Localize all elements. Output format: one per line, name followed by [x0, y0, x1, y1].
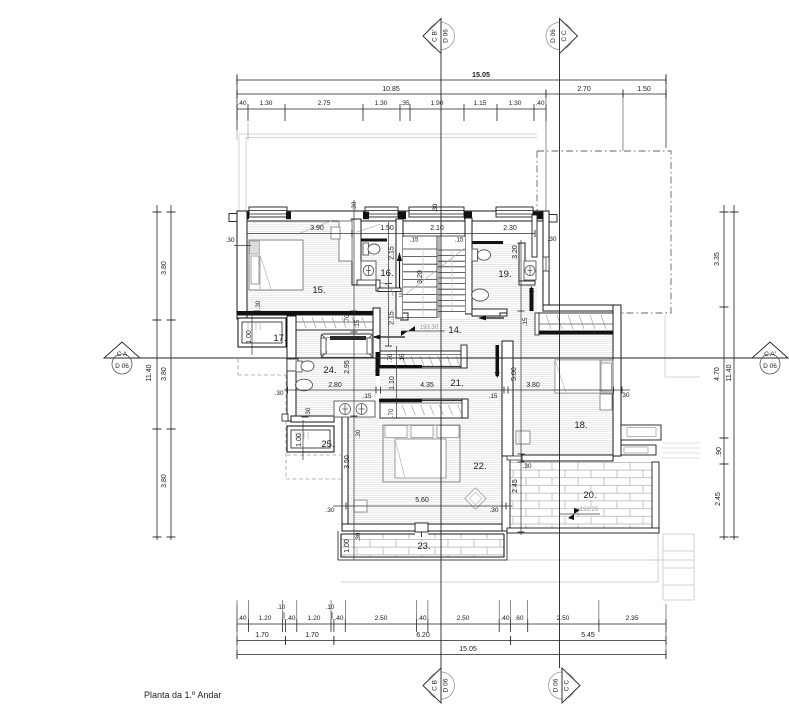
svg-text:.30: .30: [432, 203, 439, 212]
svg-text:1.10: 1.10: [389, 376, 396, 390]
svg-text:3.35: 3.35: [714, 252, 721, 266]
svg-text:4.35: 4.35: [420, 382, 434, 389]
svg-text:.35: .35: [400, 100, 409, 107]
small protrusion top-right: [549, 215, 557, 223]
svg-text:3.80: 3.80: [161, 261, 168, 275]
svg-text:23.: 23.: [417, 541, 430, 552]
svg-text:.30: .30: [489, 507, 498, 514]
svg-text:1.20: 1.20: [259, 615, 272, 622]
svg-text:C A': C A': [764, 351, 776, 358]
svg-text:.90: .90: [716, 447, 723, 457]
horizontal dim line y=506 (5.60): [333, 505, 512, 507]
left exterior wall room 15: [237, 211, 247, 319]
stairwell right wall / room19 left wall: [465, 218, 472, 314]
dash-dot roof rectangle top right: [537, 151, 671, 313]
svg-text:.40: .40: [286, 615, 295, 622]
balcony 25: [287, 426, 334, 452]
closet band C room22 top: [380, 399, 468, 418]
svg-text:1.00: 1.00: [296, 433, 303, 447]
svg-text:.40: .40: [237, 615, 246, 622]
room24 south wall: [291, 416, 334, 422]
terrace 20 brick hatch: [507, 462, 654, 528]
room18 closet thick bottom line: [537, 331, 613, 335]
small protrusion top-left: [229, 214, 238, 222]
nightstand below bed room18: [600, 394, 612, 410]
section marker CA left: [104, 342, 140, 358]
svg-text:.15: .15: [363, 393, 372, 400]
svg-text:5.60: 5.60: [415, 497, 429, 504]
svg-text:C B': C B': [432, 30, 439, 42]
room24 wall door jog: [287, 359, 298, 371]
section marker CB bottom: [428, 672, 455, 699]
svg-text:.30: .30: [255, 300, 262, 309]
svg-text:25.: 25.: [321, 439, 334, 450]
washbasin WC16: [361, 261, 376, 280]
toilet room 19: [472, 249, 478, 261]
svg-text:.60: .60: [514, 615, 523, 622]
top dim extension lines: [236, 74, 238, 130]
svg-text:2.50: 2.50: [457, 615, 470, 622]
WC16 top thick line: [361, 239, 387, 242]
ottoman diamond room 22: [465, 488, 486, 509]
svg-text:.30: .30: [274, 390, 283, 397]
toilet WC16: [363, 243, 369, 255]
svg-text:15: 15: [398, 292, 403, 298]
svg-text:193.25: 193.25: [580, 507, 599, 513]
faint steps bottom-right corner: [648, 559, 694, 561]
vertical dim line x=354: [353, 200, 355, 560]
room18 closet left stub: [535, 313, 539, 335]
window/door in room22 south wall: [415, 523, 428, 532]
svg-text:.30: .30: [522, 463, 531, 470]
svg-text:2.45: 2.45: [715, 492, 722, 506]
svg-text:193.30: 193.30: [420, 325, 439, 331]
svg-text:.30: .30: [305, 407, 312, 416]
svg-text:3.80: 3.80: [161, 367, 168, 381]
svg-text:15.05: 15.05: [459, 646, 477, 653]
faint steps right of planters: [662, 442, 700, 444]
svg-text:.30: .30: [225, 237, 234, 244]
toilet room 24: [296, 361, 302, 372]
svg-text:3.50: 3.50: [344, 455, 351, 469]
WC16 south wall with step: [357, 280, 378, 285]
svg-text:1.70: 1.70: [305, 632, 319, 639]
room 22 left wall: [342, 412, 348, 531]
terrace 20 left wall: [502, 456, 510, 531]
room 24 floor hatch: [296, 330, 376, 417]
svg-text:5.45: 5.45: [581, 632, 595, 639]
svg-text:.40: .40: [417, 615, 426, 622]
hall 14 floor hatch: [353, 285, 403, 351]
svg-text:D 06: D 06: [115, 363, 129, 370]
svg-text:2.80: 2.80: [328, 382, 342, 389]
room 18 closet band: [537, 313, 613, 331]
wall between hall/22 and room 18: [502, 341, 513, 456]
svg-text:19.: 19.: [498, 269, 511, 280]
svg-text:.15: .15: [354, 319, 361, 328]
svg-text:2.70: 2.70: [577, 86, 591, 93]
svg-text:.40: .40: [535, 100, 544, 107]
svg-text:6.20: 6.20: [416, 632, 430, 639]
svg-text:C C: C C: [564, 680, 571, 692]
balcony 23 brick hatch: [341, 534, 504, 557]
room 22 south wall: [342, 524, 502, 531]
room 18 south wall: [522, 455, 613, 461]
staircase: [403, 236, 465, 318]
vertical dim labels 2.15 / 1.10 x=396: [393, 367, 400, 369]
svg-text:.30: .30: [547, 236, 556, 243]
svg-text:15.05: 15.05: [472, 70, 490, 79]
room 18 + corridor floor hatch: [495, 311, 613, 455]
window sills top wall: [249, 207, 287, 217]
svg-text:11.40: 11.40: [146, 364, 153, 381]
svg-text:C C: C C: [561, 30, 568, 42]
svg-text:3.80: 3.80: [161, 474, 168, 488]
right exterior wall room 18: [613, 305, 621, 456]
stairwell left wall: [396, 219, 403, 318]
svg-text:15.: 15.: [312, 285, 325, 296]
faint exterior steps right: [663, 533, 694, 535]
svg-text:D 06: D 06: [763, 363, 777, 370]
svg-text:.15: .15: [522, 317, 529, 326]
stair break diagonal: [405, 247, 466, 295]
wardrobe room 15 top right: [339, 221, 352, 261]
door swing arc WC16: [381, 283, 393, 296]
svg-text:14.: 14.: [448, 325, 461, 336]
svg-text:.70: .70: [344, 314, 351, 323]
stair walking lines faint: [422, 249, 424, 317]
lower terrace outline below (faint): [341, 559, 658, 561]
balcony 17 floor hatch: [243, 322, 281, 343]
svg-text:.70: .70: [387, 353, 394, 362]
section line CC vertical: [559, 54, 561, 669]
level mark 193.30 hall 14: [401, 326, 415, 336]
pocket door leaf room 24 (dark): [376, 352, 380, 376]
svg-text:.40: .40: [237, 100, 246, 107]
svg-text:1.70: 1.70: [255, 632, 269, 639]
room 15 floor hatch: [247, 220, 352, 311]
section marker CA right: [752, 342, 788, 358]
svg-text:5.00: 5.00: [511, 367, 518, 381]
door leaf into room 18 corridor (dark): [496, 345, 500, 376]
svg-text:.15: .15: [455, 237, 464, 244]
section line CA horizontal: [105, 357, 753, 359]
svg-text:.30: .30: [351, 201, 358, 210]
balcony 17: [238, 318, 286, 347]
bottom dim extension lines: [236, 600, 238, 619]
svg-text:3.80: 3.80: [526, 382, 540, 389]
double washbasin room 24: [334, 401, 375, 417]
svg-text:2.15: 2.15: [389, 311, 396, 325]
svg-text:11.40: 11.40: [726, 364, 733, 381]
wall stub right of band C: [462, 399, 468, 418]
faint lower-roof outline right of room 18: [664, 315, 666, 377]
svg-text:.15: .15: [410, 237, 419, 244]
room 19 floor hatch: [472, 243, 520, 309]
wall between 15 and 16: [352, 219, 361, 285]
door leaf room 18 (dark): [530, 288, 534, 311]
top exterior wall: [237, 211, 549, 221]
svg-text:1.20: 1.20: [308, 615, 321, 622]
left dimension lines: [156, 205, 158, 540]
vertical dim line x=388.5 (2.15 dims): [388, 222, 390, 346]
room 15 south wall thick line: [237, 311, 374, 316]
section line CB vertical: [440, 54, 442, 669]
svg-text:18.: 18.: [574, 420, 587, 431]
right dimension lines: [723, 205, 725, 540]
svg-text:1.00: 1.00: [344, 539, 351, 553]
washbasin nook room 19: [524, 261, 536, 280]
bottom dimension lines: [237, 623, 666, 625]
svg-text:1.30: 1.30: [375, 100, 388, 107]
hall 21 floor hatch: [380, 368, 462, 399]
interior top dim line rooms 15/16/stairs/19: [247, 233, 535, 235]
small box left of balcony 25: [282, 414, 288, 421]
room19 right wall: [519, 243, 525, 281]
room 22 floor hatch: [346, 418, 502, 524]
right exterior wall top part: [543, 211, 549, 306]
svg-text:.30: .30: [620, 392, 629, 399]
svg-text:.30: .30: [325, 507, 334, 514]
terrace 20 walls: [652, 462, 659, 533]
svg-text:3.20: 3.20: [417, 270, 424, 284]
WC 16 floor hatch: [361, 243, 396, 283]
svg-text:1.90: 1.90: [431, 100, 444, 107]
svg-text:2.50: 2.50: [557, 615, 570, 622]
closet band C thick line: [379, 399, 422, 402]
balcony 25 floor hatch: [292, 430, 330, 448]
svg-text:.15: .15: [399, 353, 406, 362]
svg-text:D 06: D 06: [553, 678, 560, 692]
section marker CB top: [428, 23, 455, 50]
svg-text:1.30: 1.30: [260, 100, 273, 107]
svg-text:10.85: 10.85: [382, 86, 400, 93]
svg-text:2.10: 2.10: [430, 225, 444, 232]
svg-text:1.50: 1.50: [380, 225, 394, 232]
terrace door room18-20: [507, 456, 522, 460]
svg-text:D 06: D 06: [443, 29, 450, 43]
svg-text:.30: .30: [355, 532, 362, 541]
wall stub right of band B: [461, 345, 467, 368]
window in right wall room19: [543, 257, 549, 271]
bidet room 19: [472, 289, 489, 301]
door arrow room 19 entry: [480, 317, 504, 319]
vertical dim extension x=396 hall: [396, 346, 398, 418]
svg-text:2.50: 2.50: [375, 615, 388, 622]
svg-text:2.35: 2.35: [626, 615, 639, 622]
svg-text:2.15: 2.15: [389, 246, 396, 260]
svg-text:3.20: 3.20: [512, 245, 519, 259]
svg-text:.15: .15: [489, 393, 498, 400]
roof overhang outline above room 15: [239, 133, 537, 135]
door swing line room 15 niche: [298, 221, 331, 234]
room24 left wall: [287, 316, 296, 421]
svg-text:Planta da 1.º Andar: Planta da 1.º Andar: [144, 690, 221, 700]
bathtub room 24: [321, 334, 373, 358]
svg-text:1.15: 1.15: [474, 100, 487, 107]
svg-text:22.: 22.: [473, 461, 486, 472]
top dimension lines: [237, 79, 666, 81]
bed room 22: [383, 425, 460, 482]
bed room 15: [249, 240, 303, 290]
wall piers (dark) top wall: [237, 212, 249, 220]
level mark 193.25 terrace 20: [568, 508, 580, 520]
side table room 22: [354, 500, 367, 512]
closet band B hall wall: [380, 351, 467, 368]
top wall of room 18: [543, 305, 621, 311]
svg-text:1.50: 1.50: [637, 86, 651, 93]
closet band room 24 top: [296, 315, 374, 330]
door arrow to room 24: [374, 336, 405, 338]
svg-text:C B: C B: [432, 680, 439, 691]
svg-text:D 06: D 06: [443, 678, 450, 692]
svg-text:.40: .40: [500, 615, 509, 622]
svg-text:2.45: 2.45: [512, 479, 519, 493]
closet band B thick line: [379, 365, 422, 368]
planter boxes right of room 18: [621, 425, 661, 440]
svg-text:4.70: 4.70: [714, 367, 721, 381]
bed room 18: [555, 360, 613, 393]
svg-text:.10: .10: [326, 604, 335, 611]
svg-text:D 06: D 06: [550, 29, 557, 43]
horizontal dim line y=390: [284, 389, 630, 391]
room19 top thick line: [472, 241, 503, 244]
svg-text:2.30: 2.30: [503, 225, 517, 232]
svg-text:24.: 24.: [323, 365, 336, 376]
svg-text:3.90: 3.90: [310, 225, 324, 232]
section marker CC bottom: [549, 672, 576, 699]
nook partition wall right of room 19: [532, 215, 537, 257]
svg-text:2.75: 2.75: [318, 100, 331, 107]
svg-text:21.: 21.: [450, 378, 463, 389]
dashed projection below balcony 17: [238, 374, 286, 376]
svg-text:17.: 17.: [273, 333, 286, 344]
tub right wall: [373, 308, 380, 358]
dresser room 18 left: [516, 431, 530, 444]
svg-text:16.: 16.: [380, 268, 393, 279]
svg-text:C A: C A: [117, 351, 128, 358]
svg-text:.30: .30: [355, 429, 362, 438]
svg-text:.40: .40: [334, 615, 343, 622]
stair up arrow: [399, 261, 401, 288]
stair bottom left jog: [400, 313, 408, 320]
svg-text:1.30: 1.30: [509, 100, 522, 107]
svg-text:.10: .10: [277, 604, 286, 611]
vertical dim line x=521: [520, 240, 522, 535]
balcony 23 walls: [341, 534, 504, 557]
svg-text:20.: 20.: [583, 490, 596, 501]
svg-text:2.95: 2.95: [344, 360, 351, 374]
room19 south wall: [472, 309, 507, 316]
bidet room 24: [296, 379, 313, 391]
section marker CC top: [546, 23, 573, 50]
svg-text:.70: .70: [388, 408, 395, 417]
